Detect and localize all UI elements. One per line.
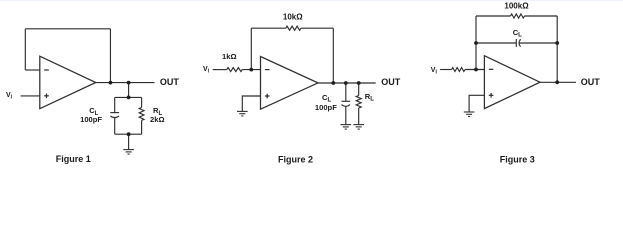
svg-text:2kΩ: 2kΩ xyxy=(150,115,165,124)
wire load stub F1 xyxy=(128,83,130,98)
node F1 output-feedback xyxy=(109,81,113,85)
wire CL branch left F3 xyxy=(476,42,516,44)
node F1 load top xyxy=(127,96,131,100)
wire load bottom bar F1 xyxy=(115,133,142,135)
wire inverting input F1 xyxy=(25,69,40,71)
wire ground stub F1 xyxy=(128,134,130,149)
wire feedback top right F3 xyxy=(524,15,557,17)
wire output F2 xyxy=(318,82,376,84)
wire VI lead F2 xyxy=(213,69,227,71)
wire feedback left vertical F2 xyxy=(250,28,252,69)
node F3 output xyxy=(555,80,559,84)
svg-text:CL: CL xyxy=(513,28,522,39)
page top tint xyxy=(0,0,623,1)
svg-text:Figure 1: Figure 1 xyxy=(56,154,91,164)
svg-text:100pF: 100pF xyxy=(315,103,337,112)
svg-text:OUT: OUT xyxy=(381,77,401,87)
node F3 CL left xyxy=(474,41,478,45)
resistor R1 1k F2 xyxy=(227,68,242,72)
ground F1 xyxy=(123,150,134,155)
wire feedback left vertical F1 xyxy=(24,29,26,70)
wire feedback top right F2 xyxy=(301,27,333,29)
resistor RF 100k F3 xyxy=(511,14,525,18)
wire feedback right vertical F3 xyxy=(556,16,558,82)
wire feedback top left F2 xyxy=(251,27,285,29)
op-amp U1 xyxy=(40,56,96,108)
wire feedback left vertical F3 xyxy=(475,16,477,70)
wire feedback top left F3 xyxy=(476,15,511,17)
wire RIN to opamp F3 xyxy=(465,69,484,71)
wire noninverting to ground F2 xyxy=(242,96,260,111)
ground F3 input xyxy=(464,112,475,117)
wire output F3 xyxy=(540,81,576,83)
svg-text:Figure 3: Figure 3 xyxy=(500,155,535,165)
svg-text:OUT: OUT xyxy=(160,77,180,87)
svg-text:100pF: 100pF xyxy=(80,115,102,124)
wire feedback right vertical F2 xyxy=(332,28,334,83)
wire R1 to opamp F2 xyxy=(242,69,260,71)
node F2 output-CL xyxy=(344,81,348,85)
capacitor CL F2 xyxy=(342,83,351,124)
svg-text:Figure 2: Figure 2 xyxy=(278,154,313,164)
op-amp U3 xyxy=(484,56,540,109)
wire output F1 xyxy=(96,82,155,84)
svg-text:10kΩ: 10kΩ xyxy=(283,13,303,22)
wire VI lead F3 xyxy=(440,69,452,71)
node F3 inverting input xyxy=(474,68,478,72)
wire CL branch right F3 xyxy=(519,42,557,44)
svg-text:VI: VI xyxy=(203,66,210,75)
wire VI lead F1 xyxy=(21,95,40,97)
svg-text:RL: RL xyxy=(365,92,374,103)
wire load top bar F1 xyxy=(115,96,142,98)
svg-text:100kΩ: 100kΩ xyxy=(504,2,529,11)
wire feedback right vertical F1 xyxy=(109,29,111,83)
node F2 output-feedback xyxy=(331,81,335,85)
capacitor CL F3 xyxy=(516,39,520,47)
svg-text:VI: VI xyxy=(431,67,438,76)
svg-text:1kΩ: 1kΩ xyxy=(222,52,237,61)
resistor RIN F3 xyxy=(452,68,465,72)
wire noninverting to ground F3 xyxy=(469,95,484,112)
wire feedback top F1 xyxy=(25,28,110,30)
resistor RF 10k F2 xyxy=(286,26,301,30)
ground F2 RL xyxy=(353,125,364,130)
node F2 inverting input xyxy=(249,68,253,72)
node F2 output-RL xyxy=(357,81,361,85)
svg-text:OUT: OUT xyxy=(581,77,601,87)
op-amp U2 xyxy=(261,57,319,110)
node F1 output-load xyxy=(127,81,131,85)
ground F2 input xyxy=(237,111,248,116)
capacitor CL F1 xyxy=(110,97,119,134)
resistor RL F1 xyxy=(139,97,144,134)
node F1 load bottom xyxy=(127,132,131,136)
svg-text:VI: VI xyxy=(6,92,13,101)
ground F2 CL xyxy=(341,125,352,130)
resistor RL F2 xyxy=(356,83,361,124)
node F3 CL right xyxy=(555,41,559,45)
